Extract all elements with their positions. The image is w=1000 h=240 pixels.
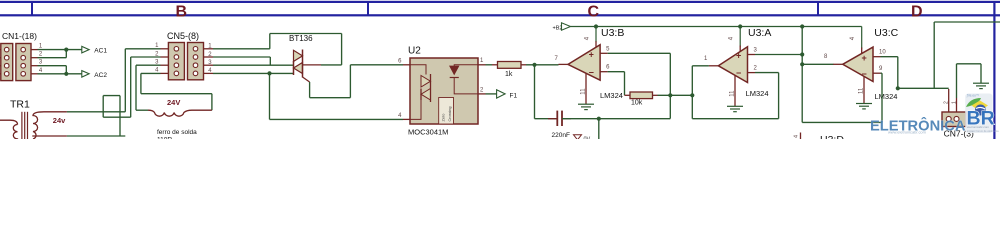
resistor 1k <box>492 62 526 79</box>
sheet border top line <box>0 1 1000 3</box>
junction <box>690 93 694 97</box>
wire CN5 left pin3 to heater <box>136 64 161 66</box>
wire TR1 secondary top <box>67 111 125 113</box>
svg-text:6: 6 <box>398 58 402 64</box>
svg-text:4: 4 <box>794 135 800 138</box>
wire +B2 rail <box>571 26 862 28</box>
wire CN5 left pin1 to TR1 top <box>125 48 160 50</box>
heater coil ferro de solda <box>148 110 212 116</box>
op-amp U3:A <box>704 27 771 107</box>
connector CN7-(3) <box>942 101 974 139</box>
svg-text:0V: 0V <box>584 137 591 140</box>
power flag (cut) <box>574 135 582 140</box>
svg-text:−: − <box>736 68 741 78</box>
wire 220nF to pin5 riser <box>562 118 670 120</box>
svg-text:MOC3041M: MOC3041M <box>408 128 448 137</box>
svg-text:5: 5 <box>606 46 610 52</box>
ground CN7 <box>973 83 989 88</box>
wire junction down to 220nF <box>534 65 536 119</box>
junction <box>594 24 598 28</box>
wire right vertical net <box>933 22 935 88</box>
wire +B2 branch down to U3:C loop <box>801 27 803 123</box>
svg-text:11: 11 <box>859 87 865 94</box>
ground U3:B pin11 <box>578 104 594 109</box>
svg-text:24V: 24V <box>167 98 180 107</box>
watermark logo <box>965 94 999 134</box>
svg-text:8: 8 <box>824 54 828 60</box>
svg-text:1: 1 <box>39 44 43 50</box>
ground U3:C pin11 <box>856 104 872 109</box>
svg-text:U2: U2 <box>408 46 421 57</box>
svg-text:Crossing: Crossing <box>448 107 452 122</box>
svg-text:2: 2 <box>39 52 43 58</box>
svg-text:B: B <box>176 4 188 21</box>
svg-text:AC1: AC1 <box>94 48 107 55</box>
svg-text:U3:C: U3:C <box>874 27 898 39</box>
terminal AC1 <box>82 46 89 53</box>
svg-text:220nF: 220nF <box>552 132 570 139</box>
svg-text:1: 1 <box>952 101 958 104</box>
terminal F1 <box>497 90 506 98</box>
svg-text:1: 1 <box>704 56 708 62</box>
wire junction down (to U3:D) <box>598 119 600 139</box>
svg-text:6: 6 <box>606 65 610 71</box>
svg-text:2: 2 <box>754 66 758 72</box>
wire BT136 MT2 to loop <box>321 64 342 66</box>
svg-text:LM324: LM324 <box>600 91 623 100</box>
svg-text:U3:B: U3:B <box>601 27 624 39</box>
svg-text:4: 4 <box>850 36 856 40</box>
svg-text:LM324: LM324 <box>746 89 769 98</box>
svg-text:10: 10 <box>879 50 886 56</box>
wire U3:A output feedback loop <box>692 65 709 67</box>
wire gnd loop CN7 pin2 <box>957 63 982 65</box>
op-amp U3:C <box>824 27 899 104</box>
svg-text:Zero: Zero <box>442 114 446 122</box>
wire U2 pin2 to F1 <box>486 93 497 95</box>
junction <box>896 86 900 90</box>
U3:D pin4 stub (cut off) <box>800 133 802 140</box>
svg-text:4: 4 <box>585 36 591 40</box>
svg-text:4: 4 <box>729 36 735 40</box>
svg-text:3: 3 <box>754 48 758 54</box>
svg-text:AC2: AC2 <box>94 72 107 79</box>
svg-text:CN5-(8): CN5-(8) <box>167 31 199 41</box>
wire 1k to U3:B pin7 <box>526 64 559 66</box>
wire BT136 gate to U2 pin6 <box>309 82 311 98</box>
sheet border right line <box>993 1 995 139</box>
wire U2 pin1 to R 1k <box>486 64 493 66</box>
svg-text:+: + <box>589 50 594 60</box>
wire 10k to U3:A output node <box>658 94 693 96</box>
svg-text:U3:A: U3:A <box>748 27 771 39</box>
junction <box>668 93 672 97</box>
wire CN1 pins 1-2 to AC1 <box>38 49 82 51</box>
ground U3:A pin11 <box>727 106 743 111</box>
svg-text:1: 1 <box>480 58 484 64</box>
junction <box>597 117 601 121</box>
svg-text:BR: BR <box>967 108 995 130</box>
svg-text:C: C <box>588 4 600 21</box>
connector CN5-(8) <box>155 31 213 80</box>
svg-text:1k: 1k <box>505 71 513 78</box>
svg-text:10k: 10k <box>631 100 643 107</box>
svg-text:www.eletronicabr.com: www.eletronicabr.com <box>888 130 926 135</box>
junction <box>800 52 804 56</box>
wire CN5 right pin1 to BT136 top loop <box>213 48 270 50</box>
svg-text:7: 7 <box>555 56 559 62</box>
wire CN5 left pin2 loop <box>131 56 161 58</box>
svg-text:ferro de solda: ferro de solda <box>157 129 197 136</box>
svg-text:24v: 24v <box>53 116 66 125</box>
wire CN5 right pins 2-3 bracket <box>213 56 270 58</box>
svg-text:2: 2 <box>480 88 484 94</box>
svg-text:F1: F1 <box>510 93 518 100</box>
junction <box>532 63 536 67</box>
wire CN5 right pin4 to BT136 MT1 <box>213 72 294 74</box>
wire CN5 left pin4 loop <box>141 72 161 74</box>
svg-text:4: 4 <box>39 68 43 74</box>
junction <box>267 71 271 75</box>
svg-text:−: − <box>589 67 594 77</box>
wire to CN7 pin1 <box>948 89 950 112</box>
svg-text:U3:D: U3:D <box>820 134 844 139</box>
svg-text:+: + <box>736 51 741 61</box>
terminal AC2 <box>82 71 89 78</box>
connector CN1-(18) <box>0 31 43 81</box>
svg-text:BT136: BT136 <box>289 34 313 43</box>
svg-text:D: D <box>911 4 923 21</box>
junction <box>64 48 68 52</box>
junction <box>800 62 804 66</box>
capacitor 220nF <box>548 111 571 139</box>
wire U3:C output <box>802 63 833 65</box>
svg-text:+: + <box>862 53 867 63</box>
wire junction down to U2 pin4 <box>269 73 271 119</box>
optocoupler U2 <box>398 46 485 137</box>
wire U3:B pin6 down to 10k <box>608 71 625 73</box>
svg-text:9: 9 <box>879 66 883 72</box>
wire U3:C pin10 right <box>881 56 898 58</box>
transformer TR1 <box>0 99 67 140</box>
wire U3:B pin5 feedback riser <box>608 52 671 54</box>
junction <box>738 24 742 28</box>
wire to CN7 area <box>898 87 949 89</box>
resistor 10k <box>625 92 658 107</box>
junction <box>800 24 804 28</box>
svg-text:2: 2 <box>944 101 950 104</box>
triac BT136 <box>289 34 321 82</box>
svg-text:3: 3 <box>39 60 43 66</box>
wire U3:A pin3 to node <box>755 54 802 56</box>
svg-text:TR1: TR1 <box>10 99 30 111</box>
junction <box>64 72 68 76</box>
wire TR1 secondary bottom <box>67 135 125 137</box>
svg-text:110R: 110R <box>157 137 172 140</box>
svg-text:CN1-(18): CN1-(18) <box>2 31 37 41</box>
svg-text:11: 11 <box>581 88 587 95</box>
svg-text:ƒile.eu™: ƒile.eu™ <box>967 94 980 98</box>
op-amp U3:B <box>555 27 625 105</box>
wire CN1 pins 3-4 to AC2 <box>38 65 67 67</box>
svg-text:11: 11 <box>730 90 736 97</box>
svg-text:4: 4 <box>398 113 402 119</box>
wire U3:C feedback loop <box>802 121 882 123</box>
svg-text:LM324: LM324 <box>875 92 898 101</box>
